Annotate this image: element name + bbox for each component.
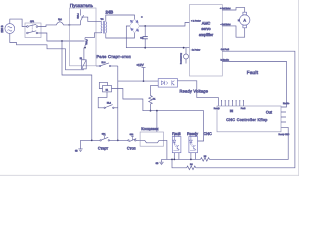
fuse F1 bbox=[53, 21, 69, 25]
svg-text:М: М bbox=[238, 19, 240, 22]
resistor R6 bbox=[187, 166, 196, 170]
wire: contact KM1.1 to transformer primary top bbox=[81, 17, 101, 22]
svg-text:Пускатель: Пускатель bbox=[70, 3, 94, 8]
wire: secondary top to bridge bbox=[106, 15, 135, 22]
svg-text:Концевик: Концевик bbox=[141, 127, 158, 131]
node bbox=[190, 159, 192, 161]
svg-text:SB2: SB2 bbox=[130, 133, 134, 136]
node A bbox=[61, 40, 63, 42]
svg-text:Fault: Fault bbox=[172, 132, 181, 136]
wire: source top to breaker bbox=[10, 19, 27, 26]
wire row2 bbox=[172, 159, 187, 167]
wire: - Out Motor to motor bbox=[222, 26, 244, 37]
svg-text:К1.2: К1.2 bbox=[107, 101, 112, 104]
svg-text:0В: 0В bbox=[75, 150, 78, 153]
svg-text:AMC: AMC bbox=[202, 21, 211, 25]
window border bottom bbox=[0, 174, 299, 176]
svg-text:CNC: CNC bbox=[204, 132, 212, 136]
wire: secondary bottom to bridge bbox=[106, 33, 135, 38]
wire: breaker pole1 to fuse bbox=[38, 25, 54, 27]
svg-text:+12V: +12V bbox=[136, 63, 144, 67]
svg-text:amplifier: amplifier bbox=[199, 33, 214, 37]
svg-text:QF1: QF1 bbox=[30, 20, 35, 23]
wire: source bottom staircase (neutral bus B) bbox=[10, 33, 84, 69]
wire: start button to stop button bbox=[110, 139, 128, 141]
window border right bbox=[297, 0, 299, 176]
pins U3 bbox=[174, 134, 179, 137]
svg-text:R5: R5 bbox=[204, 155, 207, 158]
wire: coil top to contact bbox=[83, 48, 85, 60]
wire: bridge minus bus bbox=[126, 26, 189, 48]
svg-text:In Enable: In Enable bbox=[221, 59, 230, 62]
wire: rail to opto LED anode bbox=[118, 80, 158, 82]
svg-text:+ In Power: + In Power bbox=[191, 20, 201, 23]
wire: bridge plus bus to amplifier bbox=[140, 23, 190, 27]
svg-text:R6: R6 bbox=[190, 163, 193, 166]
node bbox=[173, 159, 175, 161]
resistor R5 bbox=[201, 158, 210, 162]
wire: start row left + ground stub bbox=[81, 140, 92, 149]
node bbox=[150, 110, 152, 112]
svg-text:220 В: 220 В bbox=[0, 25, 4, 32]
contact K1.2 bbox=[98, 92, 118, 109]
svg-text:Fault: Fault bbox=[247, 70, 259, 75]
bridge rectifier VD1 bbox=[130, 19, 140, 33]
CNC top pins bbox=[221, 100, 244, 106]
circuit breaker QF1 bbox=[25, 23, 41, 38]
wire: opto output to CNC box bbox=[178, 81, 219, 106]
wire: In Enable down to CNC Enable pin bbox=[222, 62, 286, 108]
svg-text:R1: R1 bbox=[153, 98, 156, 101]
contact KM1.2 bbox=[85, 38, 88, 48]
wire: + Out Motor to motor bbox=[222, 8, 244, 12]
push button Стоп (NC) bbox=[128, 136, 140, 141]
svg-text:Реле Старт-стоп: Реле Старт-стоп bbox=[97, 54, 131, 59]
push button Старт bbox=[92, 136, 110, 141]
svg-text:A: A bbox=[243, 19, 246, 23]
fan element bbox=[184, 48, 189, 64]
node bbox=[156, 110, 158, 112]
transformer T1 bbox=[101, 21, 107, 34]
node bbox=[144, 25, 146, 27]
limit switch box Концевик bbox=[140, 132, 163, 146]
wire: coil K1 right through staircase to opto2 bbox=[112, 89, 204, 142]
svg-text:К1: К1 bbox=[106, 89, 109, 92]
svg-text:IN: IN bbox=[230, 109, 234, 113]
svg-text:Out: Out bbox=[266, 111, 273, 115]
node bbox=[171, 159, 173, 161]
node bbox=[117, 140, 119, 142]
wire: fuse node to contact KM1.1 bbox=[69, 24, 80, 26]
svg-text:0В: 0В bbox=[156, 162, 159, 165]
svg-text:Enable: Enable bbox=[283, 102, 290, 105]
svg-text:Пр1: Пр1 bbox=[58, 18, 63, 21]
wire: contact KM1.2 top to transformer primary bottom bbox=[85, 33, 102, 38]
CNC controller box Kflop bbox=[217, 106, 281, 132]
wire: stub to limit switch box bbox=[156, 111, 158, 132]
wire: row1 right to CNC Ready CNC pin bbox=[210, 127, 289, 159]
wire: breaker pole2 (bus C) bbox=[38, 33, 85, 41]
svg-text:КМ1.2: КМ1.2 bbox=[85, 39, 88, 44]
op-amp box AMC servo amplifier U1 bbox=[190, 5, 223, 77]
svg-text:Ready: Ready bbox=[187, 132, 198, 136]
svg-text:КМ1.1: КМ1.1 bbox=[77, 13, 80, 18]
contactor box Пускатель bbox=[70, 8, 97, 66]
node: contact KM1.2 bottom bbox=[84, 47, 86, 49]
svg-text:Стоп: Стоп bbox=[127, 146, 136, 150]
svg-text:Тр1: Тр1 bbox=[101, 18, 104, 21]
svg-text:Вентилятор: Вентилятор bbox=[179, 53, 182, 64]
limit switch wire bbox=[140, 140, 167, 159]
motor M1 bbox=[240, 12, 250, 28]
power flag +12V bbox=[142, 68, 146, 82]
svg-text:Ready Voltage: Ready Voltage bbox=[180, 89, 209, 94]
ground bbox=[78, 149, 82, 152]
node bbox=[91, 140, 93, 142]
svg-text:Сф: Сф bbox=[140, 36, 143, 39]
optocoupler U3 Fault bbox=[172, 137, 181, 153]
node bbox=[144, 47, 146, 49]
CNC right pins bbox=[281, 112, 286, 122]
wire: Out Fault to right bus down to opto row bbox=[196, 51, 295, 168]
optocoupler U4 Ready CNC bbox=[189, 137, 198, 153]
relay coil KM1 bbox=[82, 60, 87, 69]
svg-text:Ready CNC: Ready CNC bbox=[279, 133, 290, 136]
svg-text:Out Fault: Out Fault bbox=[221, 48, 230, 51]
capacitor C1 bbox=[143, 26, 148, 48]
row1 wire with ground bbox=[162, 158, 201, 160]
svg-text:+: + bbox=[141, 15, 143, 19]
resistor R1 bbox=[149, 85, 159, 110]
wire: 12V rail vertical bbox=[117, 66, 119, 140]
node: fuse to contactor bbox=[69, 24, 71, 26]
svg-text:servo: servo bbox=[201, 27, 210, 31]
svg-text:- In Power: - In Power bbox=[191, 48, 200, 51]
AC source V1 220V bbox=[5, 24, 15, 34]
relay coil K1 bbox=[99, 82, 111, 92]
svg-text:Ready: Ready bbox=[214, 107, 220, 110]
svg-text:CNC Controller Kflop: CNC Controller Kflop bbox=[226, 118, 267, 122]
svg-text:24В: 24В bbox=[106, 10, 114, 15]
svg-text:Старт: Старт bbox=[98, 146, 109, 150]
contact KM1.1 bbox=[81, 9, 84, 25]
wire: bus A down to start row bbox=[62, 41, 92, 140]
ground 2 bbox=[159, 159, 163, 164]
svg-text:Fault: Fault bbox=[241, 107, 246, 110]
contact K1.3 bbox=[96, 63, 118, 67]
pins U4 bbox=[191, 134, 196, 137]
svg-text:SB1: SB1 bbox=[102, 133, 106, 136]
node bbox=[143, 80, 145, 82]
optocoupler U2 ready voltage bbox=[158, 79, 177, 88]
